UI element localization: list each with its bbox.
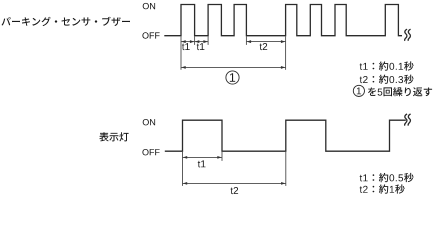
break mark: buzzer trace continuation squiggle	[405, 29, 411, 41]
dimension: buzzer t1 (pulse off width)	[195, 41, 209, 43]
wire: buzzer waveform trace	[164, 5, 402, 36]
label: indicator lamp name	[99, 132, 128, 141]
dimension: buzzer cycle (circled 1)	[181, 66, 286, 68]
dimension: buzzer t2 (pause width)	[246, 41, 285, 43]
dimension: lamp t2 (cycle time)	[183, 182, 286, 184]
label: buzzer name (parking sensor buzzer)	[2, 17, 131, 26]
extension line: lamp cycle end	[285, 152, 287, 186]
tick: t1 boundary at first fall	[194, 36, 196, 45]
label: t1 (lamp)	[198, 160, 206, 167]
label: OFF (buzzer)	[142, 32, 159, 38]
tick: t2 boundary at third fall	[245, 36, 247, 45]
label: ON (lamp)	[143, 119, 155, 125]
dimension: lamp t1 (on time)	[183, 156, 223, 158]
extension line: cycle end	[285, 36, 287, 69]
label: ON (buzzer)	[143, 3, 155, 9]
note: t1 = approx 0.1 s	[360, 61, 414, 70]
wire: indicator lamp waveform trace	[165, 120, 406, 151]
label: OFF (lamp)	[142, 149, 159, 155]
break mark: lamp trace continuation squiggle	[405, 114, 411, 126]
dimension: buzzer t1 (pulse on width)	[181, 41, 195, 43]
label: t1 first	[182, 43, 190, 50]
extension line: lamp cycle start	[182, 152, 184, 186]
symbol: circled 1 under cycle dimension	[226, 71, 239, 84]
tick: lamp t1 end	[221, 152, 223, 161]
note: repeat circled-1 five times	[353, 85, 432, 96]
note: t2 = approx 0.3 s	[360, 75, 414, 84]
note: lamp t1 = approx 0.5 s	[360, 173, 414, 182]
label: t2 (buzzer)	[260, 43, 268, 50]
note: lamp t2 = approx 1 s	[360, 184, 405, 193]
extension line: cycle start	[180, 36, 182, 69]
tick: t1 boundary at second rise	[207, 36, 209, 45]
label: t2 (lamp)	[231, 187, 239, 194]
label: t1 second	[197, 43, 205, 50]
